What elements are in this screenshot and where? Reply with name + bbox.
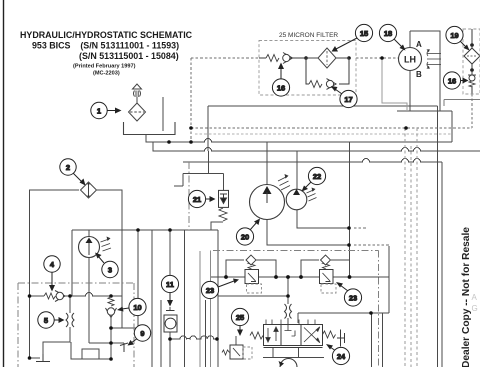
wire: vertical x=70 orifice5 branch [43,296,70,354]
svg-text:23: 23 [349,294,357,303]
svg-text:16: 16 [277,84,285,93]
svg-text:20: 20 [241,233,249,242]
relief valve RV23b (item 23) [320,255,334,284]
wire: orifice column x=288 [287,277,289,325]
svg-text:21: 21 [193,195,201,204]
svg-text:25: 25 [236,313,244,322]
wire: top right stub y=99.5 [444,100,480,107]
bottom cut motor circle [279,359,298,367]
svg-text:2: 2 [66,163,70,172]
spool valve SV24 (item 24) [250,320,345,348]
svg-text:A: A [416,40,422,49]
svg-text:(MC-2203): (MC-2203) [93,71,120,77]
wire: pump3 top line to control block y=230 [72,230,218,236]
wire: long right verticals [438,106,443,367]
svg-text:5: 5 [44,316,48,325]
svg-text:9: 9 [140,329,144,338]
wire: dashed return y=128 [191,127,472,129]
svg-text:17: 17 [344,95,352,104]
callout 18 [379,24,405,50]
gear pump P3 (item 3) [79,237,112,258]
callout 5 [38,312,65,328]
wire: pump20 bottom loop to trunk [267,219,349,245]
wire: crossover line y=339 [170,336,218,339]
wire: stub y=343 drain9 [89,342,124,344]
callout 21 [188,190,215,207]
svg-text:A: A [472,293,478,302]
orifice O5 (item 5) [66,313,74,327]
filter F15 (item 15) diamond [306,48,349,68]
wire: stub y=328 to x=138 [111,230,138,328]
svg-text:953 BICS (S/N 513111001 - 1: 953 BICS (S/N 513111001 - 11593) [32,41,179,51]
hydrostatic pump P22 [286,188,316,210]
wire: verticals right of valve bottom [372,313,383,367]
wire: dashed return y=134 [195,133,452,135]
wire: dashed verticals right [405,128,417,367]
hydrostatic pump P20 [250,174,291,220]
wire: pump3 enclosure verticals [72,230,89,343]
boundary x=18 [17,283,19,367]
wire: dashed case drains y=228,y=245 [354,228,391,245]
charge filter group box (25 micron) [259,41,356,96]
callout 20 [236,219,260,246]
boundary control block y=250.5 [213,251,379,367]
wire: valve right connection y=313 [298,313,389,323]
wire: pump22 riser x=297 [296,151,298,190]
wire: relief RV1 loop [226,260,276,277]
strainer S2 (item 2) diamond [81,182,97,198]
callout 23a [201,279,239,299]
wire: return sub line y=151 [153,142,480,151]
callout 22 [302,167,326,191]
callout 24 [326,344,350,365]
title text block [20,30,193,77]
svg-text:16: 16 [448,77,456,86]
callout 11 [161,275,178,306]
wire: LH enclosure [397,31,452,111]
wire: LH case drain return gray [382,58,407,110]
wire: right corner x=452 [451,111,453,142]
callout 15 [332,24,373,51]
wire: pump20 riser x=267 [266,142,268,185]
wire: vertical x=30 to tank [30,296,41,358]
svg-text:1: 1 [97,107,101,116]
wire: charge pilot dashed x=191 [190,58,192,144]
wire: charge pilot dashed y=58 [191,57,399,59]
wire: filter1 pipe [162,97,164,131]
svg-text:25 MICRON FILTER: 25 MICRON FILTER [279,32,338,39]
callout 25 [231,308,248,336]
callout 9 [128,325,151,346]
callout 23b [336,282,362,306]
wire: tank return from reservoir y=142 [146,134,452,142]
check valve box (item 11) [164,307,177,332]
svg-text:3: 3 [108,266,112,275]
svg-text:10: 10 [133,303,141,312]
wire: relief RV2 loop [301,260,350,277]
callout 19 [446,26,470,50]
svg-text:LH: LH [404,55,416,65]
left page border [3,0,5,367]
svg-text:11: 11 [166,280,174,289]
boundary left y=283 [18,282,134,284]
drain screw (item 9) [120,343,128,352]
wire: x=389 drop [388,246,390,313]
svg-text:B: B [416,70,422,79]
wire: check valve 4 line y=296 [30,293,123,296]
callout 3 [95,253,118,278]
case drain filter F19 (item 19) [464,29,480,94]
callout 17 [331,86,358,108]
wire: pump22 bottom loop to trunk [297,208,349,228]
svg-text:18: 18 [384,29,392,38]
pilot valve PV26 bottom-left of spool [222,336,243,359]
relief valve RV21 (item 21) [219,190,229,221]
relief valve RV23a (item 23) [245,255,259,284]
filter F1 (item 1) diamond with breather [129,84,146,121]
svg-text:24: 24 [337,352,346,361]
svg-text:15: 15 [360,29,368,38]
wire: bottom-left small box [71,342,111,359]
wire: y=296 into valve feed [218,295,288,297]
machine boundary dash-dot lines [18,162,379,367]
wire: dashed x=472 drop from filter19 [471,94,473,128]
tank symbol bottom-left [36,354,50,362]
check valve CV16b (item 16 right) [468,75,476,87]
wire: trunk H1 y=106 [208,106,438,151]
wire: suction line y=190 from left vertical through strainer [30,190,123,328]
svg-text:23: 23 [206,286,214,295]
wire: box11 column x=169 [169,230,171,367]
callout 1 [91,102,122,118]
check valve CV16a (item 16) [259,53,306,64]
svg-text:Dealer Copy -- Not for Resale: Dealer Copy -- Not for Resale [461,227,472,367]
svg-text:(Printed February 1997): (Printed February 1997) [73,64,136,70]
svg-text:HYDRAULIC/HYDROSTATIC SCHEMATI: HYDRAULIC/HYDROSTATIC SCHEMATIC [20,30,193,40]
svg-text:22: 22 [313,172,321,181]
dashed pilot and boundary lines [191,58,472,367]
callout 16b [443,72,468,89]
callout 16a [272,63,289,97]
callout 2 [60,159,86,186]
wire: check valve 10 column x=112 [110,296,112,359]
svg-text:G: G [472,304,478,313]
wire: trunk H6 y=162 [183,159,442,162]
wire: spool valve drains bottom [263,348,324,358]
bypass check CV17 (item 17) [306,58,349,89]
check valve CV4 (item 4) spring+ball [44,291,65,302]
reservoir tank [124,122,176,135]
wire: relief line y=277 [211,276,390,278]
wire: bottom verticals [152,230,206,367]
wire: control block left border x=218 [217,230,219,367]
svg-text:19: 19 [450,31,458,40]
wire: valve21 drain [211,222,223,230]
boundary x=134 [133,283,135,367]
LH drive motor (item 18) [399,48,442,71]
orifice O-center x=288 [285,304,292,319]
wire: main trunk x=349 [349,142,351,277]
check valve CV10 (item 10) vertical spring+ball [106,297,117,318]
callout 4 [44,256,60,292]
wire: valve21 feed staircase [174,151,224,190]
wire: control block outline [200,251,211,367]
svg-text:(S/N 513115001 - 15084): (S/N 513115001 - 15084) [79,51,179,61]
callout 10 [117,298,146,315]
boundary x=189 pump block [188,162,190,230]
